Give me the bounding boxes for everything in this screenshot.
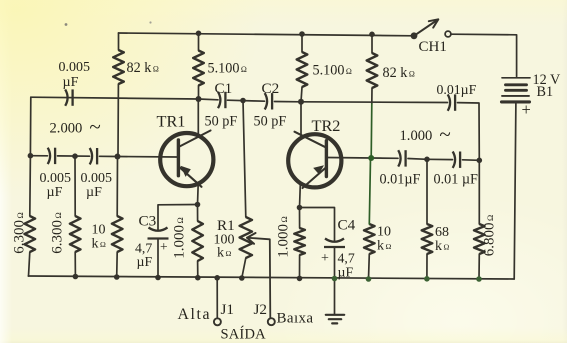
junction C1-C2 / R1 [240,98,246,104]
svg-text:kΩ: kΩ [377,239,392,254]
svg-text:1.000Ω: 1.000Ω [276,216,292,257]
resistor 10k (TR1 base) [112,216,123,252]
svg-text:5.100Ω: 5.100Ω [313,63,352,79]
wire: switch to battery top [452,34,517,76]
svg-text:Baıxa: Baıxa [277,311,314,327]
wire: 68k node to 0.01uF cap b [427,158,453,160]
svg-text:C2: C2 [262,80,280,97]
svg-text:C1: C1 [215,80,233,97]
svg-text:10: 10 [377,225,391,240]
wire: bottom rail [28,276,514,279]
svg-text:5.100Ω: 5.100Ω [208,61,247,77]
wire: TR1 emitter down [197,184,200,205]
capacitor C2 50pF [265,93,267,109]
junction rail / J1 [214,275,220,281]
capacitor 0.005uF (feedback, top-left) [65,89,67,105]
junction TR2 base node [368,155,374,161]
junction rail / 6.300-2 [73,274,79,280]
jack J2 (Baixa) [268,318,275,325]
svg-text:TR2: TR2 [312,116,341,135]
capacitor C1 50pF [218,92,220,108]
wire: TR1 collector feedback (left, y=97) [31,97,199,99]
wire: C2 to TR2 collector node [275,101,302,103]
junction left net node 1 [28,153,34,159]
junction top rail / 82k right [369,32,375,38]
junction 68k node [424,157,430,163]
wire: C1 to C2 segment [228,100,265,101]
svg-text:1.000Ω: 1.000Ω [172,217,188,258]
wire: 0.01uF cap to right corner, down to node [458,103,480,161]
resistor 5.100 ohm (TR1 collector load) [198,33,200,50]
svg-text:2.000~: 2.000~ [50,115,101,139]
svg-text:µF: µF [338,265,354,280]
wire: top supply rail [119,33,415,36]
wire: 0.01uF b to right node [463,159,480,162]
jack J1 (Alta) [216,278,218,319]
svg-text:C4: C4 [338,217,356,234]
svg-text:+: + [321,251,329,266]
resistor 68k (right net shunt) [422,224,433,254]
svg-text:TR1: TR1 [157,112,186,131]
svg-text:4,7: 4,7 [338,251,355,266]
svg-text:0.005: 0.005 [40,171,72,186]
capacitor 0.005uF (left net a) [48,148,50,164]
wire: base node to 0.01uF cap a [371,157,398,159]
svg-text:J2: J2 [254,301,268,318]
junction right net corner node [477,158,483,164]
wire: TR2 collector to node [300,102,302,136]
junction rail / 1.000 TR1 [195,275,201,281]
svg-text:C3: C3 [139,213,157,230]
svg-text:kΩ: kΩ [217,246,232,261]
battery B1 12V [502,77,530,79]
svg-text:68: 68 [435,225,449,240]
resistor 1.000 ohm (TR1 emitter) [192,221,203,261]
resistor 1.000 ohm (TR2 emitter) [294,228,305,255]
svg-text:6.300Ω: 6.300Ω [50,212,66,253]
capacitor C3 4.7uF electrolytic [158,205,198,230]
capacitor 0.005uF (left net b) [90,148,92,164]
wire: collector bus C1 side [199,98,219,101]
svg-text:Alta: Alta [178,306,212,323]
wire: TR1 collector to node [197,99,199,135]
svg-text:µF: µF [137,254,153,269]
junction top rail / 5.100 right [299,31,305,37]
wire: left phase-net vertical [29,97,31,156]
wire: TR2 base bar to base node [328,157,371,160]
svg-text:50 pF: 50 pF [254,114,287,130]
svg-text:J1: J1 [221,301,235,318]
wire: TR1 base node to base bar [118,156,177,159]
transistor TR1 (PNP) [160,133,213,186]
junction top rail / 5.100 left [196,31,202,37]
junction TR1 collector node [196,96,202,102]
resistor 10k (TR2 base) [364,224,375,254]
resistor 5.100 ohm (TR2 collector load) [301,34,303,52]
junction rail / 1.000 TR2 [297,276,303,282]
svg-text:µF: µF [86,185,102,200]
svg-text:µF: µF [63,75,79,90]
resistor 82k (right bias) [371,34,373,53]
capacitor 0.01uF (collector coupling, top right) [448,94,450,110]
svg-text:0.01µF: 0.01µF [437,82,477,97]
svg-text:82 kΩ: 82 kΩ [383,65,415,81]
junction rail / C3 [155,275,161,281]
svg-text:6.800Ω: 6.800Ω [482,215,498,256]
svg-text:R1: R1 [217,217,235,234]
resistor 82k (left bias) [118,33,120,50]
svg-text:10: 10 [92,223,106,238]
wiper arrow of R1 to J2 [247,238,270,319]
svg-text:kΩ: kΩ [435,239,450,254]
resistor 6.800 ohm (right net shunt) [474,224,485,254]
junction rail / ground C4 [332,276,338,282]
capacitor 0.01uF (right net b) [453,152,455,168]
ground [334,279,336,315]
speck artifact [65,23,68,26]
capacitor 0.01uF (right net a) [398,150,400,166]
wire: 0.01uF a to 68k node [408,158,427,161]
transistor TR2 (PNP) [288,134,341,187]
svg-text:kΩ: kΩ [92,237,107,252]
svg-text:B1: B1 [537,84,554,100]
svg-text:+: + [522,100,531,119]
junction TR2 collector node [298,99,304,105]
junction TR1 emitter node [195,202,201,208]
junction rail / 10k left [114,274,120,280]
resistor 6.300 ohm (left net shunt 2) [70,216,81,252]
potentiometer R1 100k [240,217,252,258]
svg-text:50 pF: 50 pF [205,114,238,130]
junction rail / 6.800 [476,276,482,282]
wire: left base net y=156 (to first 0.005 cap) [30,155,47,157]
svg-text:CH1: CH1 [419,39,447,55]
svg-text:µF: µF [47,185,63,200]
junction TR1 base node [115,154,121,160]
resistor 6.300 ohm (left net shunt 1) [25,216,36,252]
junction rail / 10k right [366,276,372,282]
capacitor C4 4.7uF electrolytic [300,208,335,241]
wire: 0.005 cap b to TR1 base node [100,155,118,157]
wire: TR2 collector node to 0.01uF cap [301,101,448,104]
svg-text:0.005: 0.005 [81,171,113,186]
svg-text:SAÍDA: SAÍDA [221,326,267,343]
junction rail / R1 [239,275,245,281]
svg-text:+: + [160,239,168,254]
junction rail / 68k [424,276,430,282]
svg-text:1.000~: 1.000~ [400,122,451,146]
wire: TR2 emitter down [299,185,302,208]
svg-text:0.01µF: 0.01µF [380,172,421,188]
wire: between 0.005 caps a-b [58,155,90,157]
svg-text:0.005: 0.005 [59,60,91,75]
wire: battery minus to bottom rail [514,102,516,279]
switch CH1 [411,32,418,39]
junction left net node 2 [72,153,78,159]
svg-text:0.01 µF: 0.01 µF [434,172,479,188]
svg-text:6.300Ω: 6.300Ω [12,212,28,253]
svg-text:82 kΩ: 82 kΩ [127,60,159,76]
junction TR2 emitter node [297,205,303,211]
